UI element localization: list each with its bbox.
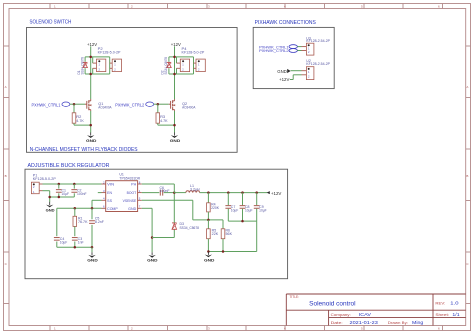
svg-text:22K: 22K (212, 232, 220, 236)
svg-text:KF128-2.54-2P: KF128-2.54-2P (306, 62, 330, 66)
svg-text:ICAV: ICAV (359, 312, 371, 317)
svg-text:+12V: +12V (87, 42, 97, 47)
svg-text:SS34_C8678: SS34_C8678 (80, 57, 84, 75)
svg-text:TITLE:: TITLE: (290, 295, 300, 299)
svg-text:2021-01-23: 2021-01-23 (350, 320, 379, 325)
svg-text:GND: GND (204, 259, 215, 263)
svg-text:REV:: REV: (435, 301, 445, 305)
svg-text:Date:: Date: (331, 321, 343, 325)
svg-text:Drawn By:: Drawn By: (388, 321, 408, 325)
svg-text:ADJUSTIBLE BUCK REGULATOR: ADJUSTIBLE BUCK REGULATOR (28, 163, 110, 169)
svg-text:Solenoid control: Solenoid control (309, 300, 355, 307)
svg-text:KF128-5.0-2P: KF128-5.0-2P (182, 51, 205, 55)
svg-text:SOLENOID SWITCH: SOLENOID SWITCH (30, 19, 72, 25)
svg-text:100nF: 100nF (77, 192, 87, 196)
svg-text:N-CHANNEL MOSFET WITH FLYBACK: N-CHANNEL MOSFET WITH FLYBACK DIODES (30, 147, 138, 153)
svg-text:GND: GND (128, 207, 137, 211)
svg-text:3.2µH: 3.2µH (190, 187, 200, 191)
svg-text:Sheet:: Sheet: (435, 313, 449, 317)
svg-text:GND: GND (277, 69, 287, 74)
svg-text:TPS54331DR: TPS54331DR (119, 177, 140, 181)
svg-text:PXHWK_CTRL1: PXHWK_CTRL1 (32, 102, 62, 107)
svg-text:AO3400A: AO3400A (98, 106, 112, 110)
svg-text:SS34_C8678: SS34_C8678 (164, 57, 168, 75)
svg-text:PIXHAWK CONNECTIONS: PIXHAWK CONNECTIONS (255, 20, 316, 26)
svg-text:+12V: +12V (271, 191, 282, 196)
svg-text:GND: GND (87, 259, 98, 263)
svg-text:SS34_C8678: SS34_C8678 (180, 226, 200, 230)
svg-text:GND: GND (147, 259, 158, 263)
svg-text:+12V: +12V (171, 42, 181, 47)
svg-text:Company:: Company: (331, 313, 351, 317)
svg-text:AO3400A: AO3400A (182, 106, 196, 110)
svg-text:GND: GND (86, 139, 97, 143)
svg-text:+12V: +12V (279, 77, 289, 82)
svg-text:10µF: 10µF (62, 192, 70, 196)
svg-text:4.7K: 4.7K (160, 119, 168, 123)
svg-text:PH: PH (131, 183, 137, 187)
svg-text:SS: SS (107, 199, 112, 203)
svg-text:8.2nF: 8.2nF (95, 220, 104, 224)
svg-text:VIN: VIN (107, 183, 115, 187)
svg-text:KF128-2.54-2P: KF128-2.54-2P (306, 39, 330, 43)
svg-text:76.7K: 76.7K (78, 220, 88, 224)
svg-text:Ming: Ming (412, 320, 424, 325)
svg-text:4.7K: 4.7K (76, 119, 84, 123)
svg-text:COMP: COMP (107, 207, 118, 211)
svg-text:10µF: 10µF (60, 241, 68, 245)
svg-text:VSENSE: VSENSE (123, 199, 137, 203)
svg-text:56K: 56K (226, 232, 234, 236)
svg-text:B: B (5, 174, 7, 178)
svg-text:A: A (5, 85, 7, 89)
svg-text:10µF: 10µF (259, 208, 267, 212)
svg-text:220K: 220K (211, 206, 220, 210)
svg-text:KF128-5.0-2P: KF128-5.0-2P (98, 51, 121, 55)
svg-text:1/1: 1/1 (452, 312, 460, 317)
svg-text:1.0: 1.0 (450, 301, 459, 306)
svg-text:B: B (466, 174, 468, 178)
svg-text:10µF: 10µF (245, 208, 253, 212)
svg-text:1nF: 1nF (78, 241, 84, 245)
svg-text:PXHWK_CTRL2: PXHWK_CTRL2 (259, 49, 289, 53)
svg-text:GND: GND (170, 139, 181, 143)
svg-text:KF128-5.0-2P: KF128-5.0-2P (33, 177, 56, 181)
svg-text:10µF: 10µF (231, 208, 239, 212)
svg-text:EN: EN (107, 191, 113, 195)
svg-text:BOOT: BOOT (127, 191, 137, 195)
svg-text:100nF: 100nF (160, 189, 170, 193)
svg-text:GND: GND (46, 208, 55, 212)
svg-text:PXHWK_CTRL2: PXHWK_CTRL2 (115, 102, 145, 107)
svg-text:A: A (466, 85, 468, 89)
